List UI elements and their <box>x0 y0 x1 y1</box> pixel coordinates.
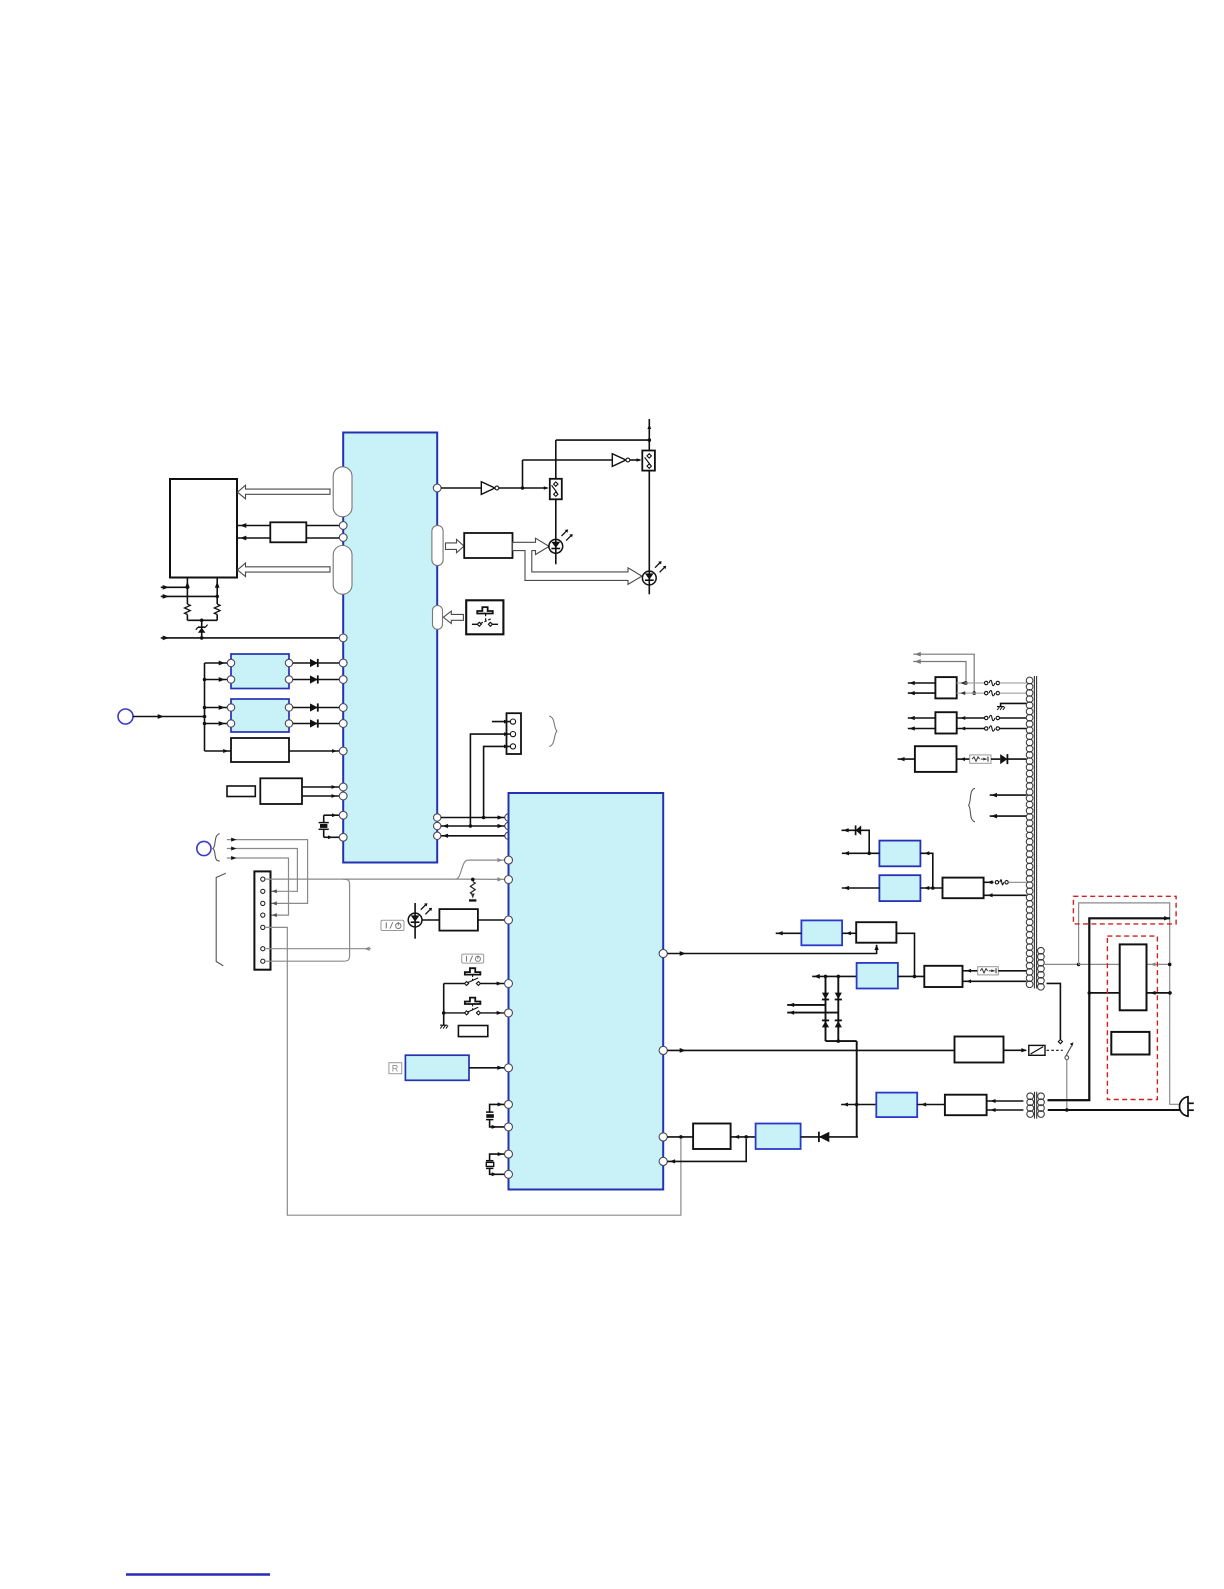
label box R (IR) <box>389 1063 402 1074</box>
pin PH1.2 <box>227 676 234 683</box>
bus arrow to block A1 (upper hollow arrow) <box>238 485 331 499</box>
wire SN1 input <box>776 931 802 935</box>
oscillator block OSC1 <box>260 778 302 804</box>
rectifier block RC2 <box>924 966 962 987</box>
wire feedback loop <box>667 1139 746 1164</box>
port pad P2 on U1 left edge <box>333 546 352 595</box>
filter block FB1 <box>935 677 956 698</box>
relay RY1 link (dashed) <box>1047 1049 1063 1051</box>
pin CN2.1 <box>510 719 515 724</box>
pin U1.d4 <box>339 720 347 728</box>
pin PH1.3 <box>285 659 292 666</box>
pin U1.j (right edge) <box>433 484 441 492</box>
bus arrow to block A1 (lower hollow arrow) <box>238 563 331 577</box>
resistor R3 to ground <box>469 882 476 902</box>
wire RM1 to U3 <box>469 1066 504 1070</box>
wire SB1 to U1 <box>289 749 339 753</box>
pin CN1.5 <box>261 925 265 929</box>
wire block A1 sense leads <box>185 578 220 605</box>
brace CN2 <box>549 716 557 747</box>
crystal X2 <box>486 1102 504 1128</box>
pin PH2.2 <box>227 720 234 727</box>
connector J2 (blue circle) <box>197 841 211 855</box>
pin U1.i <box>339 833 347 841</box>
pin U3.1 <box>505 856 513 864</box>
pin U3.2 <box>505 876 513 884</box>
wire bridge bottom <box>826 1039 857 1137</box>
pin U3.13 (right) <box>659 1133 667 1141</box>
pin PH2.3 <box>285 704 292 711</box>
resistor network RB1 <box>270 522 306 542</box>
block PS3 (cyan) <box>857 963 898 989</box>
wire bus row1 <box>441 815 505 819</box>
wire tap1 <box>990 793 1027 797</box>
switch S4 (key) <box>444 968 505 985</box>
voltage selector loop (gray) <box>1079 903 1180 1104</box>
brace J2 <box>213 834 220 861</box>
block PS1 <box>693 1124 731 1150</box>
wire R4 to U3 <box>478 919 504 921</box>
wire CN2.1 stub <box>492 720 510 724</box>
IC U1 (system control / DSP, main cyan block) <box>343 433 437 863</box>
wire PS1 to PS2 <box>731 1135 756 1139</box>
pin U1.d1 <box>339 659 347 667</box>
pin U1.b <box>339 534 347 542</box>
pin U3.5 <box>505 1009 513 1017</box>
transformer T1 secondary winding <box>1026 677 1033 988</box>
connector CN1 (7-pin) <box>254 871 270 969</box>
wire U3 to relay RY1 <box>667 1048 954 1053</box>
wire CN1.6 stub <box>265 947 371 951</box>
pin CN1.6 <box>261 947 265 951</box>
svg-text:R: R <box>392 1064 399 1074</box>
regulator block VR2 (cyan) <box>879 875 920 901</box>
wire TD1 to TD2 <box>917 1103 945 1107</box>
wire tap2 <box>990 814 1027 818</box>
resistor R4 <box>439 909 478 931</box>
pin U1.e <box>339 747 347 755</box>
resistor R2 <box>214 604 220 620</box>
wire CN1.1-CN1.7 loop <box>265 879 350 961</box>
wire HB1 in <box>898 757 915 761</box>
diode D2 <box>293 675 339 683</box>
wire AC in 2 <box>787 1010 838 1014</box>
pin CN1.3 <box>261 901 265 905</box>
pin CN2.2 <box>510 732 515 737</box>
wire selector black run <box>1048 916 1171 1100</box>
dashed service box (inner) <box>1107 936 1157 1099</box>
wire T1 primary tap <box>1044 963 1080 967</box>
port pad P4 on U1 right edge <box>433 606 443 630</box>
pin U3.11 (right) <box>659 949 667 957</box>
wire J2 line2 <box>227 847 298 894</box>
wire S3 top rail <box>556 419 651 451</box>
pin CN1.1 <box>261 877 265 881</box>
sensor block SB1 <box>231 738 289 762</box>
pin U1.r3 <box>434 832 441 839</box>
switch S2 <box>550 479 562 500</box>
wire VR2 out <box>920 886 942 890</box>
brace T1 taps <box>969 788 975 822</box>
transformer T2 primary winding <box>1027 1093 1034 1117</box>
voltage selector block VS1 <box>1120 944 1147 1010</box>
buffer U2a <box>441 482 499 495</box>
wire U3 to PSU block <box>667 1135 693 1139</box>
LED LD2 <box>642 561 666 585</box>
wire J1 to bus <box>133 714 205 719</box>
diode D1 <box>293 659 339 667</box>
driver block TD1 (cyan) <box>876 1093 917 1118</box>
wire T2 left2 <box>987 1108 1024 1112</box>
pin U1.d2 <box>339 676 347 684</box>
wire LD3 to R4 <box>422 919 439 921</box>
power switch S6 <box>1058 1040 1073 1112</box>
block A1 (mechanism / deck unit box) <box>170 479 237 578</box>
pin CN1.7 <box>261 959 265 963</box>
wire T2 right bottom (AC line) <box>1048 1109 1180 1111</box>
LED LD1 <box>549 529 573 553</box>
oscillator label box X0 <box>227 786 255 797</box>
filter block FB2 <box>935 712 956 733</box>
pin U1.a <box>339 522 347 530</box>
wire FB1 in1 <box>908 681 936 685</box>
diode D10 branch <box>842 825 872 855</box>
wire PS3 to RC2 <box>898 975 924 979</box>
wire drive bus stub <box>841 1103 876 1107</box>
wire CN2.2 run <box>470 732 510 826</box>
block RC0 (white, sense) <box>856 922 896 943</box>
pin U3.10 <box>505 1170 513 1178</box>
pin U3.3 <box>505 916 513 924</box>
wire CN2.3 run <box>484 745 510 818</box>
pin U2in.2 <box>505 822 512 829</box>
pin PH1.4 <box>285 676 292 683</box>
block SN1 (cyan) <box>801 920 842 945</box>
connector J1 (blue circle) <box>118 709 133 724</box>
pin U3.6 <box>505 1064 513 1072</box>
pin U2in.3 <box>505 832 512 839</box>
wire out OUT2 <box>913 659 968 685</box>
pin U3.7 <box>505 1100 513 1108</box>
driver block FL1 <box>464 533 512 558</box>
switch S1 (power, boxed) <box>466 600 503 634</box>
crystal X1 <box>319 813 340 839</box>
pin U2in.1 <box>505 814 512 821</box>
diode D9 <box>835 1020 842 1027</box>
wire key common + ground <box>440 984 448 1029</box>
wire S2 to LED1 <box>555 499 557 564</box>
pin U1.h <box>339 811 347 819</box>
wire FB1 in2 <box>908 691 936 695</box>
photo-interrupter block PH1 (cyan) <box>231 654 289 689</box>
wire T2 right top <box>1048 1099 1090 1101</box>
IC U3 (servo / power control, second cyan block) <box>509 793 664 1190</box>
relay RY1 actuator <box>1004 1045 1046 1055</box>
wire S2 top <box>555 440 557 479</box>
wire bridge leg1 <box>825 976 827 1041</box>
label box I/O (standby LED) <box>381 920 404 930</box>
resistor R1 <box>185 604 191 620</box>
wire out OUT1 <box>913 652 976 695</box>
wire branch up <box>523 460 613 488</box>
diode D7 <box>835 993 842 1000</box>
pin U3.14 (right) <box>659 1157 667 1165</box>
AC plug PLG1 <box>1180 1097 1194 1117</box>
buffer U2b <box>612 454 630 467</box>
label box I/O (power key) <box>462 954 484 963</box>
wire FB2 in2 <box>908 726 936 730</box>
wire J2 line3 <box>227 856 289 917</box>
wire U3 to regulator sense <box>667 944 878 956</box>
block PS2 (cyan) <box>756 1124 801 1150</box>
wire DC rail to PS3 <box>812 974 856 979</box>
wire supply bus (vertical) <box>203 661 231 753</box>
pin PH1.1 <box>227 659 234 666</box>
diode D6 <box>822 993 829 1000</box>
arrow SW1 to pad P4 <box>443 611 463 623</box>
resonator X3 <box>486 1152 504 1176</box>
connector CN2 (3-pin) <box>507 713 522 754</box>
wire FB2 in1 <box>908 716 936 720</box>
wire SN1 to RC0 <box>842 931 856 935</box>
pin U3.9 <box>505 1150 513 1158</box>
fuse F4 line <box>957 715 1027 720</box>
pin PH2.1 <box>227 704 234 711</box>
transformer T2 secondary winding <box>1038 1093 1045 1117</box>
pin U1.r1 <box>434 814 441 821</box>
rectifier block RC1 <box>943 878 984 899</box>
pin U1.c <box>339 634 347 642</box>
wire bus row3 <box>441 834 505 838</box>
diode D3 <box>293 703 339 711</box>
pin U3.4 <box>505 980 513 988</box>
transformer T1 primary winding <box>1038 947 1045 990</box>
heater block HB1 <box>915 746 957 772</box>
wire OSC1 out1 <box>302 785 339 789</box>
wire U2b to S3 <box>630 458 642 462</box>
port pad P3 on U1 right edge <box>432 525 443 565</box>
wire CN1.1 to U3 (key sense) <box>265 858 504 882</box>
wire selector mid <box>1089 991 1171 995</box>
switch S3 (muting) <box>642 451 655 471</box>
wire RC2 out2 <box>963 979 1027 983</box>
thermistor TH1 line <box>963 967 1027 975</box>
wire RB1 upper <box>237 523 339 528</box>
wire RC1 out2 <box>984 893 1027 897</box>
switch S5 (key) <box>444 998 505 1015</box>
wire AC in 1 <box>787 1003 825 1007</box>
relay RY1 coil box <box>955 1037 1004 1063</box>
wire R1-R2 join <box>187 619 217 623</box>
zener diode ZD1 <box>196 620 208 639</box>
pin CN2.3 <box>510 744 515 749</box>
driver block TD2 <box>945 1095 987 1116</box>
transformer T2 core <box>1035 1092 1037 1119</box>
wire T1 primary bottom <box>1047 983 1061 1039</box>
fuse F1 line <box>984 880 1027 885</box>
hollow arrow FL1 to LEDs <box>513 538 642 584</box>
pin U3.12 (right) <box>659 1046 667 1054</box>
wire OSC1 out2 <box>302 794 339 798</box>
thermistor TH2 line <box>957 754 1027 764</box>
wire RC0 to PS3 node <box>896 933 914 976</box>
wire VR1 out <box>920 851 934 889</box>
pin CN1.2 <box>261 889 265 893</box>
fuse F3 line <box>957 690 1027 695</box>
wire input IN1 <box>161 585 189 590</box>
pin U3.8 <box>505 1123 513 1131</box>
port pad P1 on U1 left edge <box>333 467 352 517</box>
pin PH2.4 <box>285 720 292 727</box>
wire bus row2 <box>441 824 505 828</box>
pin U1.f <box>339 783 347 791</box>
LED LD3 (standby) <box>408 903 432 939</box>
fuse F2 line <box>957 680 1027 685</box>
wire VR2 input <box>842 886 880 890</box>
arrow pad P3 to FL1 <box>446 539 465 552</box>
diode D5 <box>801 1132 858 1142</box>
wire input IN2 <box>161 594 219 599</box>
regulator block VR1 (cyan) <box>879 841 920 867</box>
wire net VREF (long horizontal) <box>161 636 339 641</box>
wire bridge leg2 <box>837 976 839 1041</box>
ground tap GND1 <box>997 703 1027 710</box>
pin CN1.4 <box>261 913 265 917</box>
pin U1.d3 <box>339 704 347 712</box>
wire VR1 input <box>842 851 880 855</box>
block KB1 <box>458 1026 487 1037</box>
IR receiver block RM1 (cyan) <box>405 1055 469 1080</box>
wire S3 to LED2 <box>648 471 650 595</box>
wire U2a to S2 <box>499 486 549 490</box>
dashed service box (outer) <box>1073 896 1176 924</box>
wire T2 left1 <box>987 1099 1024 1103</box>
transformer T1 core <box>1034 676 1036 989</box>
fuse F5 line <box>957 726 1027 731</box>
diode D4 <box>293 719 339 727</box>
wire J2 line1 <box>227 838 308 906</box>
diode D8 <box>822 1020 829 1027</box>
pin U1.g <box>339 792 347 800</box>
footer rule <box>126 1573 270 1575</box>
pin U1.r2 <box>434 822 441 829</box>
photo-interrupter block PH2 (cyan) <box>231 699 289 732</box>
label block VS2 <box>1111 1032 1149 1055</box>
wire RB1 lower <box>237 536 339 541</box>
wire CN1.5 loop (gray return) <box>265 927 681 1215</box>
bracket CN1 group <box>216 873 226 966</box>
